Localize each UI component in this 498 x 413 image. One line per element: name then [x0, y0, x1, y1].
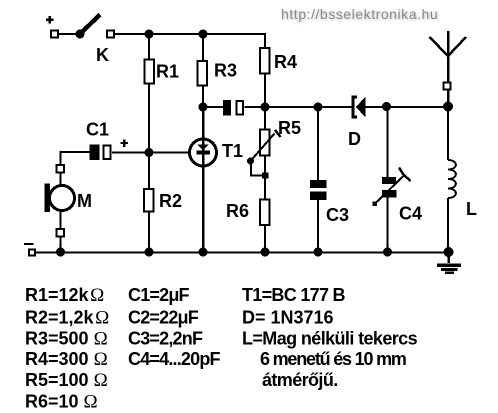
node antenna / L [443, 102, 453, 112]
parts list column 2 [128, 285, 221, 369]
label plus at C1 [121, 142, 129, 144]
parts list column 3 [242, 285, 418, 390]
battery plus terminal [46, 16, 58, 37]
wire collector-emitter through T1 [202, 107, 205, 252]
svg-text:T1: T1 [222, 141, 243, 161]
svg-text:R5: R5 [278, 118, 301, 138]
site url header [281, 6, 439, 23]
wire R5 wiper to column [251, 161, 263, 176]
node C4 / bottom rail [383, 248, 392, 257]
wire R5 to R6 [264, 157, 266, 199]
mic top connector square [57, 165, 65, 173]
svg-text:R2: R2 [159, 191, 182, 211]
wire R4 node to diode [265, 106, 352, 108]
capacitor C4 plate top [382, 177, 396, 184]
antenna left arm [430, 37, 449, 56]
switch K right terminal [107, 31, 114, 38]
microphone M element bar [45, 184, 51, 213]
svg-text:R1: R1 [156, 62, 179, 82]
antenna right arm [448, 37, 466, 56]
node T1 / bottom rail [199, 248, 208, 257]
svg-text:C1: C1 [86, 120, 109, 140]
node ground / bottom rail [444, 247, 454, 257]
wire diode to antenna column [365, 106, 448, 108]
svg-text:C3: C3 [326, 205, 349, 225]
mic bottom connector square [57, 229, 65, 237]
diode D triangle [356, 97, 366, 118]
wire square to bottom rail [60, 237, 62, 253]
svg-text:M: M [77, 191, 92, 211]
battery minus terminal [29, 250, 35, 256]
wire antenna node to L [447, 107, 449, 160]
capacitor C3 plate bottom [310, 192, 327, 201]
wire C2 to R4 node [245, 106, 266, 108]
svg-text:C1=2μF: C1=2μF [128, 285, 190, 305]
antenna mast [447, 31, 450, 107]
node top rail / R3 [199, 30, 208, 39]
wire R2 to bottom rail [148, 213, 150, 253]
node C4 branch [382, 102, 391, 111]
svg-text:R4=300 Ω: R4=300 Ω [25, 349, 108, 370]
node R6 / bottom rail [261, 248, 270, 257]
wire rail to R1 [148, 34, 150, 59]
wire plus terminal to switch [58, 33, 78, 35]
capacitor C4 arrow [373, 168, 411, 207]
switch K pivot [76, 30, 85, 39]
svg-text:C4: C4 [399, 204, 422, 224]
wire C4 to bottom rail [387, 197, 389, 252]
capacitor C1 plate - [104, 146, 111, 160]
svg-text:http://bsselektronika.hu: http://bsselektronika.hu [281, 6, 438, 22]
svg-text:C2=22μF: C2=22μF [128, 308, 199, 328]
capacitor C1 plate + [90, 145, 100, 161]
svg-text:6 menetű és 10 mm: 6 menetű és 10 mm [260, 349, 406, 369]
wire R4 to mid node [264, 75, 266, 111]
resistor R5 arrow [251, 130, 281, 161]
svg-text:C3=2,2nF: C3=2,2nF [128, 329, 203, 349]
wire C3 to bottom rail [317, 199, 319, 252]
svg-text:L: L [466, 199, 477, 219]
svg-text:átmérőjű.: átmérőjű. [262, 370, 338, 390]
capacitor C2 plate + [223, 100, 231, 116]
wire R1 to base node [148, 85, 150, 154]
wire mid node to C2 [203, 106, 223, 108]
ground [437, 252, 461, 274]
wire C1 to base node [112, 152, 190, 154]
svg-text:R6: R6 [226, 201, 249, 221]
svg-text:R1=12k Ω: R1=12k Ω [25, 285, 104, 306]
wire C4 branch down [387, 107, 389, 178]
resistor R1 [145, 60, 155, 84]
svg-text:D: D [348, 129, 361, 149]
svg-text:R3=500 Ω: R3=500 Ω [25, 329, 108, 350]
capacitor C4 plate bottom [382, 190, 397, 198]
resistor R5 [260, 130, 270, 156]
antenna connector square [444, 83, 451, 90]
node R3 / C2 [199, 103, 208, 112]
node R2 / bottom rail [145, 248, 154, 257]
node C3 / bottom rail [314, 248, 323, 257]
resistor R4 [260, 48, 270, 74]
node R5 wiper [247, 158, 254, 165]
svg-text:R4: R4 [274, 52, 297, 72]
wire rail to R3 [202, 34, 204, 60]
wire rail corner down to R4 [264, 33, 266, 47]
wire top rail [114, 33, 265, 35]
capacitor C3 plate top [310, 180, 327, 188]
resistor R6 [260, 200, 270, 226]
svg-text:R6=10 Ω: R6=10 Ω [25, 392, 98, 413]
svg-text:R2=1,2k Ω: R2=1,2k Ω [25, 308, 109, 329]
battery minus sign [24, 243, 34, 245]
wire C3 branch down [317, 107, 319, 181]
wire L to bottom rail [447, 198, 449, 252]
wire bottom rail [36, 252, 453, 254]
capacitor C2 plate - [237, 101, 244, 115]
wire R3 to mid node [202, 87, 204, 111]
node R4 / R5 / C2 [261, 103, 270, 112]
wire C1 to mic corner [61, 152, 90, 165]
svg-text:D= 1N3716: D= 1N3716 [242, 308, 334, 328]
transistor T1 base bar [197, 151, 211, 155]
node wiper join [262, 173, 269, 179]
svg-text:T1=BC 177 B: T1=BC 177 B [242, 285, 346, 305]
svg-text:R3: R3 [214, 61, 237, 81]
wire R4 node to R5 [264, 107, 266, 130]
wire mic to bottom square [60, 211, 62, 230]
transistor T1 [190, 139, 217, 166]
wire square to mic [60, 173, 62, 187]
svg-text:C4=4...20pF: C4=4...20pF [128, 349, 221, 369]
resistor R3 [198, 61, 208, 86]
svg-text:R5=100 Ω: R5=100 Ω [25, 370, 108, 391]
microphone M body [50, 186, 75, 211]
transistor T1 emitter arrow [198, 145, 209, 151]
node base / R1 / R2 [145, 148, 154, 157]
node mic / bottom rail [56, 248, 65, 257]
node C3 branch [314, 103, 323, 112]
wire R6 to bottom rail [264, 226, 266, 253]
parts list column 1 [25, 285, 109, 413]
node top rail / R1 [145, 30, 154, 39]
inductor L [448, 160, 456, 198]
resistor R2 [144, 189, 154, 212]
wire base node to R2 [148, 153, 150, 189]
diode D cathode bar [353, 97, 357, 117]
svg-text:K: K [96, 45, 109, 65]
svg-text:L=Mag nélküli tekercs: L=Mag nélküli tekercs [242, 329, 418, 349]
switch K lever [80, 15, 100, 35]
